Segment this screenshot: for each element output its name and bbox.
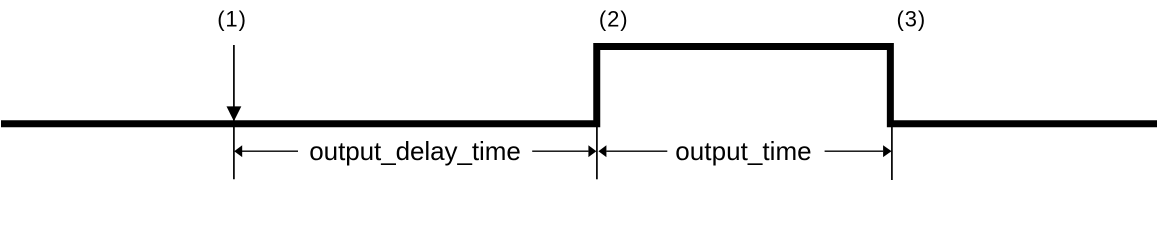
signal waveform: low, rising edge (2), high, falling edge (3), low <box>1 47 1157 124</box>
marker line at event (1) <box>233 45 235 179</box>
svg-text:output_time: output_time <box>675 136 811 166</box>
svg-text:(1): (1) <box>217 6 247 31</box>
output_time dimension: left arrowhead <box>598 145 606 157</box>
marker line at event (2) <box>596 124 598 179</box>
svg-text:(3): (3) <box>897 6 927 31</box>
marker line at event (3) <box>891 124 893 180</box>
output_time dimension: right arrowhead <box>883 145 892 157</box>
svg-text:output_delay_time: output_delay_time <box>309 136 520 166</box>
output_delay_time dimension: left arrowhead <box>234 145 242 157</box>
down arrowhead at event (1) <box>227 106 242 121</box>
svg-text:(2): (2) <box>599 6 629 31</box>
output_delay_time dimension: right arrowhead <box>588 145 596 157</box>
output_delay_time dimension: right line <box>532 150 588 152</box>
output_time dimension: right line <box>825 150 884 152</box>
output_time dimension: left line <box>606 150 667 152</box>
output_delay_time dimension: left line <box>242 150 298 152</box>
